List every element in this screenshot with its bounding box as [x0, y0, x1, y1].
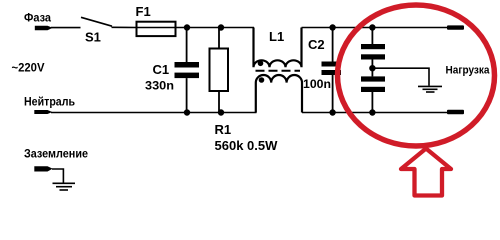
svg-text:L1: L1 [269, 29, 284, 44]
inductor L1 winding A (phase) [254, 28, 302, 68]
svg-text:330n: 330n [145, 79, 174, 93]
junction C1 bottom [184, 109, 190, 115]
terminal Нейтраль [34, 110, 52, 114]
wire to mains ground [52, 169, 63, 183]
svg-text:100n: 100n [303, 77, 331, 91]
junction Y-cap bottom [369, 109, 375, 115]
junction Y-cap top [369, 24, 375, 30]
svg-text:Нагрузка: Нагрузка [446, 65, 491, 77]
svg-text:S1: S1 [85, 30, 101, 45]
svg-text:C2: C2 [308, 37, 325, 52]
highlight arrow [401, 149, 451, 196]
wire midpoint to earth [372, 68, 429, 86]
capacitor C4 (Y bottom) [361, 76, 385, 112]
terminal neutral out [447, 110, 464, 115]
highlight ellipse [338, 5, 495, 146]
ground (mains) [53, 183, 76, 190]
svg-text:Заземление: Заземление [24, 147, 88, 161]
terminal Фаза [35, 26, 53, 31]
terminal Заземление [34, 166, 52, 171]
svg-text:560k 0.5W: 560k 0.5W [215, 138, 279, 153]
terminal phase out [447, 25, 464, 29]
switch S1 [81, 17, 112, 26]
capacitor C1 [175, 28, 200, 113]
ground (load side) [418, 86, 442, 92]
junction C2 top [329, 24, 335, 30]
wire L1 to load (top rail right) [302, 27, 449, 29]
svg-text:R1: R1 [215, 122, 232, 137]
junction C1 top [184, 24, 190, 30]
wire fuse to L1 (top rail) [176, 27, 255, 29]
junction R1 bottom [218, 109, 224, 115]
wire neutral rail left [51, 112, 257, 114]
wire neutral rail right [302, 112, 448, 114]
resistor R1 [210, 28, 229, 113]
wire phase terminal to switch [51, 27, 81, 29]
svg-text:F1: F1 [136, 4, 151, 19]
junction C2 bottom [329, 109, 335, 115]
svg-text:Фаза: Фаза [24, 11, 51, 25]
L1 core [256, 70, 301, 72]
svg-text:C1: C1 [153, 62, 170, 77]
capacitor C2 [322, 28, 342, 113]
svg-text:~220V: ~220V [12, 61, 45, 75]
svg-text:Нейтраль: Нейтраль [24, 95, 75, 109]
junction R1 top [218, 24, 224, 30]
inductor L1 winding B (neutral) [256, 75, 302, 113]
fuse F1 [137, 22, 176, 36]
capacitor C3 (Y top) [361, 28, 385, 77]
wire switch to fuse [112, 26, 138, 28]
junction midpoint [369, 65, 375, 71]
